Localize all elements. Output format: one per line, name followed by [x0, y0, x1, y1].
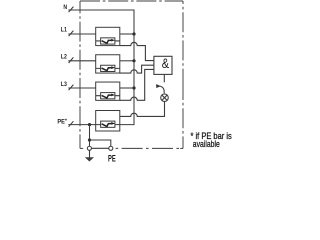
terminal circle PE bar	[109, 146, 113, 150]
svg-text:&: &	[162, 56, 170, 72]
indicator lamp	[161, 94, 169, 102]
slash on L1 wire	[69, 31, 74, 37]
PE down wire to earth terminal	[89, 125, 91, 147]
monitor wire L1 with hop over N bus	[120, 42, 154, 60]
earth arrow	[85, 150, 94, 161]
enclosure border bottom-left corner piece	[80, 147, 83, 149]
enclosure border bottom-right corner piece	[180, 147, 183, 149]
SPD spark-gap box N-PE	[96, 111, 120, 132]
wire L1 left segment	[68, 33, 95, 35]
lamp return wire to PE arrester with hop over N bus	[120, 102, 165, 117]
enclosure border top	[80, 0, 183, 2]
wire L3 left segment	[68, 87, 95, 89]
junction dot L3/N bus	[132, 86, 135, 89]
AND gate box	[154, 56, 172, 74]
monitor wire L2 with hop over N bus	[120, 65, 154, 73]
SPD arrester box L3	[96, 82, 120, 100]
junction dot L1/N bus	[132, 32, 135, 35]
junction dot L2/N bus	[132, 59, 135, 62]
junction dot PE wire branch	[88, 123, 91, 126]
SPD arrester box L1	[96, 27, 120, 45]
junction dot PE branch	[88, 138, 91, 141]
svg-text:L2: L2	[61, 54, 67, 61]
svg-text:PE*: PE*	[57, 118, 67, 125]
svg-text:L3: L3	[61, 81, 67, 88]
svg-text:N: N	[63, 5, 67, 12]
wire L3 right segment to N bus	[120, 87, 134, 89]
svg-text:available: available	[193, 139, 220, 149]
slash on L3 wire	[69, 85, 74, 91]
svg-text:L1: L1	[61, 27, 68, 34]
wire N with N-bus down to PE arrester output	[68, 10, 134, 125]
svg-text:PE: PE	[108, 153, 116, 164]
actuation arrow to lamp	[156, 84, 164, 93]
monitor wire L3 with hop over N bus	[120, 69, 154, 100]
SPD arrester box L2	[96, 55, 120, 73]
branch wire to PE-bar terminal	[90, 140, 111, 146]
slash on N wire	[69, 7, 74, 13]
enclosure border right	[182, 1, 184, 80]
gate output wire	[163, 74, 165, 82]
wire PE left segment	[68, 124, 95, 126]
wire between terminals	[92, 147, 109, 149]
wire L1 right segment to N bus	[120, 33, 134, 35]
wire L2 right segment to N bus	[120, 60, 134, 62]
slash on L2 wire	[69, 57, 74, 63]
enclosure border left	[79, 1, 81, 148]
terminal circle earth	[87, 146, 91, 150]
slash on PE wire	[69, 121, 74, 127]
wire L2 left segment	[68, 60, 95, 62]
enclosure border bottom dashed segment	[116, 147, 183, 149]
